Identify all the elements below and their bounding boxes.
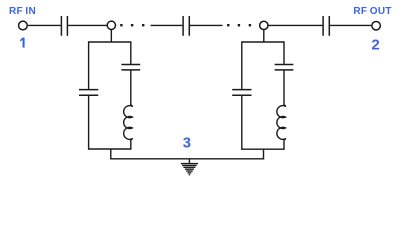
capacitor C6 (tank 2 shunt): [232, 90, 251, 96]
wire tank 1 to ground rail: [110, 149, 112, 159]
wire C2 to dots: [190, 24, 223, 26]
ground symbol stub: [188, 159, 190, 163]
wire tank 2 left branch lower: [241, 96, 243, 150]
port P2 terminal circle: [372, 21, 381, 30]
inductor L1: [124, 105, 133, 139]
wire C7 to L2: [283, 71, 285, 106]
wire P1 to C1: [28, 24, 61, 26]
wire L1 to tank 1 bottom bar: [130, 139, 132, 150]
wire C3 to P2: [330, 24, 371, 26]
svg-text:2: 2: [371, 38, 379, 54]
capacitor C2 (series, middle): [183, 16, 189, 36]
capacitor C7 (tank 2 series): [275, 65, 294, 70]
wire C5 to L1: [130, 71, 132, 106]
ellipsis dots (repeated sections): [227, 24, 251, 26]
ground symbol (earth bars): [181, 164, 198, 175]
label port number 1: [20, 38, 23, 48]
svg-text:RF OUT: RF OUT: [353, 6, 391, 17]
capacitor C4 (tank 1 shunt): [79, 90, 98, 96]
svg-text:3: 3: [183, 136, 191, 152]
wire tank 2 top bar: [242, 41, 284, 43]
capacitor C5 (tank 1 series): [121, 65, 140, 70]
wire node A down to tank 1: [110, 30, 112, 43]
inductor L2: [277, 105, 286, 139]
capacitor C3 (series): [323, 16, 329, 36]
wire ground rail: [110, 158, 264, 160]
wire tank 1 bottom bar: [89, 148, 131, 150]
wire node B to C3: [269, 24, 323, 26]
wire tank 1 top bar: [89, 41, 131, 43]
wire tank 1 right branch upper: [130, 41, 132, 64]
wire tank 1 left branch upper: [88, 41, 90, 89]
junction node B: [260, 21, 268, 29]
wire tank 2 right branch upper: [283, 41, 285, 64]
ellipsis dots (repeated sections): [120, 24, 144, 26]
wire tank 2 bottom bar: [242, 148, 284, 150]
port P1 terminal circle: [19, 21, 28, 30]
wire tank 2 to ground rail: [263, 149, 265, 159]
wire node B down to tank 2: [263, 30, 265, 43]
wire tank 1 left branch lower: [88, 96, 90, 150]
wire L2 to tank 2 bottom bar: [283, 139, 285, 150]
wire dots to C2: [151, 24, 183, 26]
junction node A: [107, 21, 115, 29]
svg-text:RF IN: RF IN: [9, 6, 36, 17]
capacitor C1 (series): [61, 16, 67, 36]
wire C1 to node A: [68, 24, 107, 26]
wire tank 2 left branch upper: [241, 41, 243, 89]
